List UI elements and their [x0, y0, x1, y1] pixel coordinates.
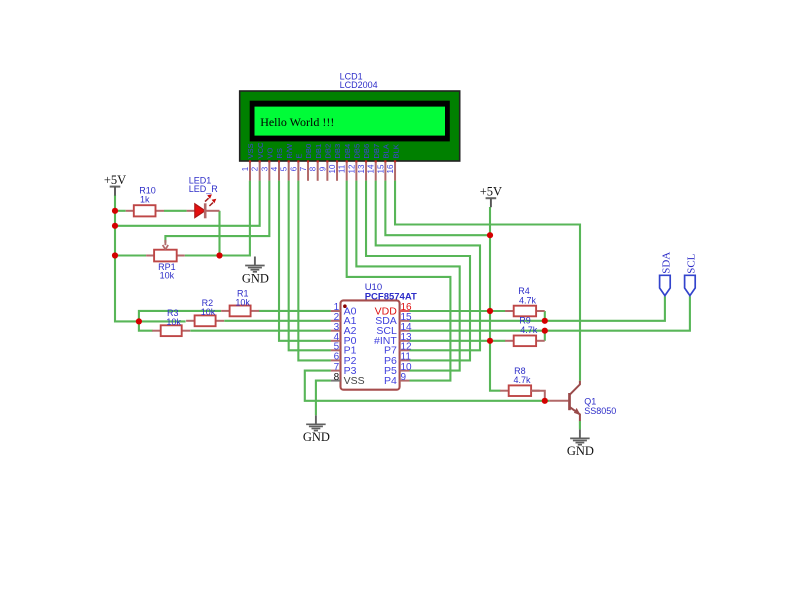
svg-text:5: 5 — [280, 166, 289, 171]
svg-text:Hello World !!!: Hello World !!! — [260, 115, 334, 129]
svg-text:+5V: +5V — [480, 185, 502, 199]
svg-text:DB4: DB4 — [343, 144, 352, 159]
svg-text:4.7k: 4.7k — [520, 325, 538, 335]
svg-text:VCC: VCC — [256, 142, 265, 159]
svg-text:SDA: SDA — [660, 252, 672, 274]
svg-text:PCF8574AT: PCF8574AT — [365, 292, 417, 303]
svg-text:SCL: SCL — [685, 253, 697, 273]
svg-text:16: 16 — [386, 164, 395, 173]
svg-text:11: 11 — [338, 164, 347, 173]
svg-text:4.7k: 4.7k — [519, 295, 537, 305]
svg-text:7: 7 — [299, 166, 308, 171]
svg-text:VSS: VSS — [344, 375, 365, 387]
svg-text:9: 9 — [318, 166, 327, 171]
svg-text:9: 9 — [401, 372, 407, 383]
svg-text:+5V: +5V — [104, 173, 126, 187]
svg-text:SS8050: SS8050 — [584, 406, 616, 416]
svg-text:LCD2004: LCD2004 — [340, 80, 378, 90]
svg-text:12: 12 — [347, 164, 356, 173]
svg-text:DB3: DB3 — [333, 144, 342, 159]
svg-text:BLA: BLA — [382, 143, 391, 158]
svg-text:DB7: DB7 — [372, 144, 381, 159]
svg-text:6: 6 — [289, 166, 298, 171]
svg-text:DB6: DB6 — [362, 144, 371, 159]
svg-text:8: 8 — [309, 166, 318, 171]
svg-text:LED_R: LED_R — [189, 184, 219, 194]
svg-text:2: 2 — [251, 166, 260, 171]
svg-text:R/W: R/W — [285, 143, 294, 159]
svg-text:13: 13 — [357, 164, 366, 173]
svg-text:GND: GND — [303, 430, 330, 444]
svg-text:GND: GND — [567, 444, 594, 458]
svg-text:BLK: BLK — [391, 144, 400, 158]
svg-text:Q1: Q1 — [584, 396, 596, 406]
svg-text:1: 1 — [241, 166, 250, 171]
svg-text:10k: 10k — [235, 297, 250, 307]
svg-text:10k: 10k — [201, 307, 216, 317]
svg-text:VSS: VSS — [246, 143, 255, 158]
svg-text:DB0: DB0 — [304, 144, 313, 159]
svg-text:DB5: DB5 — [353, 144, 362, 159]
svg-text:14: 14 — [367, 164, 376, 173]
svg-text:4: 4 — [270, 166, 279, 171]
svg-text:GND: GND — [242, 271, 269, 285]
svg-text:1k: 1k — [140, 195, 150, 205]
svg-text:VO: VO — [266, 148, 275, 159]
svg-text:3: 3 — [260, 166, 269, 171]
svg-text:4.7k: 4.7k — [513, 375, 531, 385]
svg-text:P4: P4 — [384, 375, 397, 387]
svg-text:DB2: DB2 — [324, 144, 333, 159]
svg-text:10: 10 — [328, 164, 337, 173]
svg-text:10k: 10k — [166, 317, 181, 327]
svg-text:15: 15 — [376, 164, 385, 173]
svg-text:10k: 10k — [160, 271, 175, 281]
svg-text:DB1: DB1 — [314, 144, 323, 159]
svg-text:E: E — [295, 154, 304, 159]
svg-text:RS: RS — [275, 148, 284, 159]
svg-text:8: 8 — [334, 372, 340, 383]
